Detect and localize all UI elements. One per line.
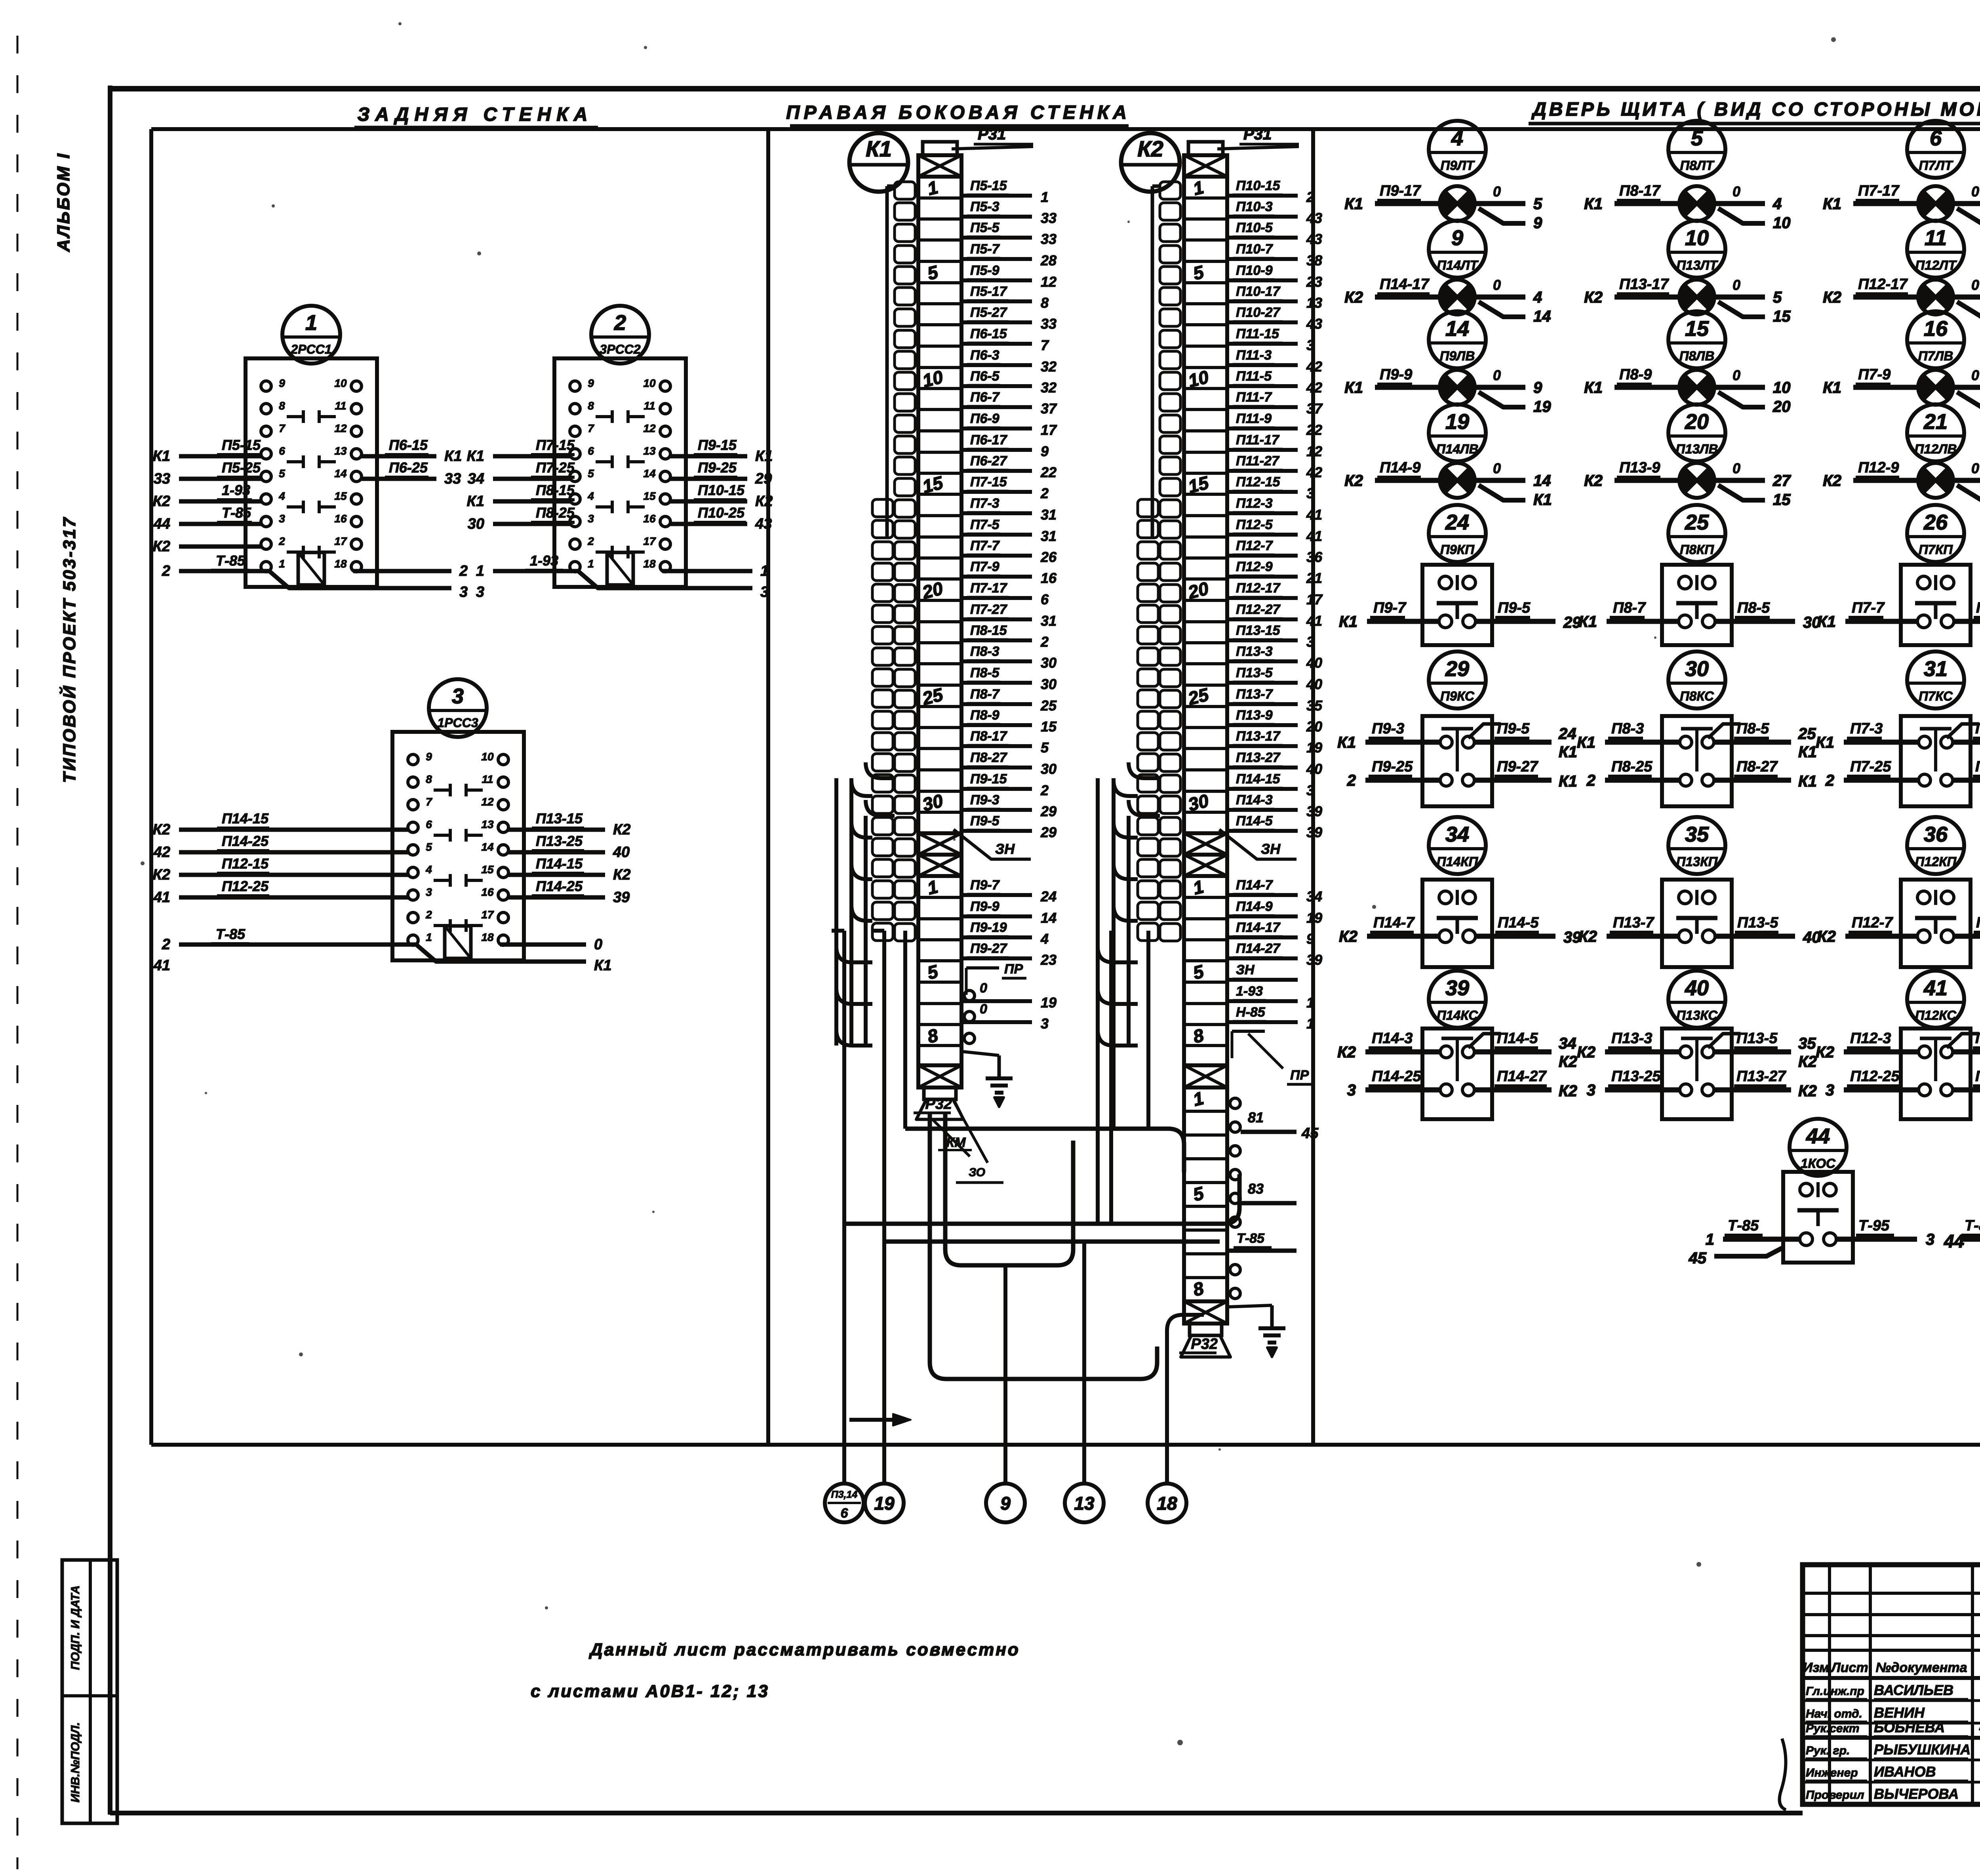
svg-text:П5-3: П5-3	[970, 199, 1000, 214]
svg-text:20: 20	[1306, 718, 1322, 735]
svg-text:1: 1	[476, 563, 484, 579]
svg-text:ЗАДНЯЯ СТЕНКА: ЗАДНЯЯ СТЕНКА	[358, 104, 593, 125]
svg-text:16: 16	[334, 512, 347, 525]
svg-text:11: 11	[1925, 226, 1947, 250]
svg-text:26: 26	[1040, 549, 1057, 565]
svg-text:8: 8	[1191, 1278, 1206, 1300]
svg-text:1: 1	[1306, 1015, 1314, 1032]
svg-text:9: 9	[1041, 443, 1049, 459]
svg-text:43: 43	[1306, 210, 1322, 226]
svg-text:31: 31	[1041, 528, 1057, 544]
svg-text:0: 0	[1971, 460, 1979, 476]
svg-text:П7-7: П7-7	[1852, 600, 1885, 616]
svg-text:Н-85: Н-85	[1236, 1005, 1266, 1020]
svg-text:К2: К2	[153, 493, 171, 510]
svg-text:15: 15	[334, 490, 347, 502]
svg-text:П13-25: П13-25	[536, 833, 583, 849]
svg-text:К2: К2	[1344, 289, 1363, 306]
svg-text:П12ЛВ: П12ЛВ	[1915, 442, 1957, 456]
svg-text:34: 34	[1445, 823, 1469, 846]
svg-text:40: 40	[1306, 676, 1322, 692]
svg-text:6: 6	[1930, 126, 1942, 150]
svg-text:Р32: Р32	[1191, 1336, 1218, 1352]
svg-text:35: 35	[1685, 823, 1709, 846]
svg-text:Т-85: Т-85	[1237, 1231, 1265, 1246]
svg-text:20: 20	[1772, 398, 1791, 415]
svg-text:К2: К2	[1578, 928, 1597, 945]
svg-text:9: 9	[279, 377, 285, 389]
svg-text:П14-17: П14-17	[1380, 276, 1430, 293]
svg-text:П12-5: П12-5	[1975, 1030, 1980, 1047]
svg-text:П10-5: П10-5	[1236, 220, 1273, 235]
svg-text:14: 14	[481, 841, 494, 853]
svg-text:П13-5: П13-5	[1737, 914, 1778, 931]
svg-text:8: 8	[1041, 295, 1049, 311]
svg-text:П12-25: П12-25	[1850, 1068, 1900, 1085]
svg-text:7: 7	[1041, 337, 1049, 353]
svg-text:39: 39	[1306, 952, 1322, 968]
svg-text:2: 2	[425, 908, 432, 921]
svg-text:П14-3: П14-3	[1372, 1030, 1413, 1047]
svg-text:8: 8	[1191, 1025, 1206, 1047]
svg-text:П13КС: П13КС	[1676, 1008, 1718, 1023]
svg-text:К2: К2	[153, 867, 171, 883]
svg-text:П12-3: П12-3	[1850, 1030, 1891, 1047]
svg-text:11: 11	[335, 400, 346, 412]
svg-text:7: 7	[279, 422, 286, 434]
svg-text:13: 13	[1306, 295, 1322, 311]
svg-text:19: 19	[1306, 910, 1322, 926]
svg-text:8: 8	[426, 773, 432, 785]
svg-text:22: 22	[1040, 464, 1057, 480]
svg-text:П9-3: П9-3	[1372, 720, 1404, 737]
svg-text:К2: К2	[1584, 289, 1603, 306]
svg-text:2РСС1: 2РСС1	[290, 342, 331, 356]
svg-text:П8-7: П8-7	[1613, 600, 1646, 616]
svg-text:2: 2	[1306, 189, 1314, 205]
svg-text:К1: К1	[1339, 613, 1357, 630]
svg-text:6: 6	[1041, 591, 1049, 608]
svg-text:0: 0	[1493, 460, 1501, 476]
svg-text:40: 40	[1685, 976, 1709, 1000]
svg-text:15: 15	[1773, 491, 1791, 509]
svg-text:8: 8	[925, 1025, 940, 1047]
svg-text:П8-17: П8-17	[970, 729, 1008, 744]
svg-text:5: 5	[1191, 1183, 1206, 1205]
svg-text:17: 17	[1306, 591, 1323, 608]
svg-text:К1: К1	[1337, 734, 1356, 751]
svg-text:К2: К2	[1798, 1082, 1817, 1100]
svg-text:18: 18	[643, 558, 656, 570]
svg-text:81: 81	[1248, 1109, 1264, 1126]
svg-text:П9-19: П9-19	[970, 920, 1007, 935]
svg-text:П8-27: П8-27	[1736, 758, 1778, 775]
svg-text:П9-5: П9-5	[1497, 720, 1530, 737]
svg-text:1-93: 1-93	[1236, 984, 1263, 999]
svg-text:19: 19	[1445, 410, 1469, 434]
svg-text:3: 3	[1826, 1082, 1834, 1099]
svg-text:ДВЕРЬ ЩИТА ( ВИД СО СТОРО: ДВЕРЬ ЩИТА ( ВИД СО СТОРОНЫ МОНТАЖА)	[1531, 99, 1980, 120]
svg-text:30: 30	[468, 516, 484, 532]
svg-text:П6-7: П6-7	[970, 390, 1000, 405]
svg-text:П8-5: П8-5	[1737, 600, 1770, 616]
svg-text:П7-3: П7-3	[970, 496, 1000, 511]
svg-text:0: 0	[980, 1002, 987, 1017]
svg-text:К1: К1	[594, 957, 612, 974]
svg-text:П7-25: П7-25	[536, 459, 575, 476]
svg-text:П9-9: П9-9	[1380, 366, 1412, 383]
svg-text:8: 8	[279, 400, 285, 412]
svg-text:П12-3: П12-3	[1236, 496, 1273, 511]
svg-text:2: 2	[1040, 485, 1049, 501]
svg-text:26: 26	[1923, 510, 1948, 534]
svg-text:3: 3	[476, 584, 484, 600]
svg-text:7: 7	[588, 422, 594, 434]
svg-text:П14-17: П14-17	[1236, 920, 1281, 935]
svg-text:К2: К2	[1137, 136, 1163, 161]
svg-text:9: 9	[588, 377, 594, 389]
svg-text:Изм: Изм	[1803, 1660, 1830, 1675]
svg-text:П9ЛТ: П9ЛТ	[1441, 158, 1475, 173]
svg-text:29: 29	[755, 470, 772, 487]
svg-text:28: 28	[1040, 252, 1057, 269]
svg-text:11: 11	[643, 400, 655, 412]
svg-text:7: 7	[426, 796, 432, 808]
svg-text:Рук. гр.: Рук. гр.	[1806, 1744, 1850, 1757]
svg-text:4: 4	[278, 490, 285, 502]
svg-text:1: 1	[1306, 994, 1314, 1011]
svg-text:П8-5: П8-5	[1736, 720, 1769, 737]
svg-text:П8-15: П8-15	[970, 623, 1007, 638]
svg-text:1: 1	[925, 177, 940, 199]
svg-text:К2: К2	[1344, 472, 1363, 489]
svg-text:9: 9	[426, 750, 432, 763]
svg-text:К1: К1	[153, 448, 171, 465]
svg-text:П13-27: П13-27	[1236, 750, 1281, 765]
svg-text:К1: К1	[1798, 743, 1817, 761]
svg-text:3: 3	[1306, 634, 1314, 650]
svg-text:П9-7: П9-7	[970, 878, 1000, 893]
svg-text:П9-3: П9-3	[970, 792, 1000, 808]
svg-text:6: 6	[279, 445, 285, 457]
svg-text:П5-17: П5-17	[970, 284, 1008, 299]
svg-text:13: 13	[1074, 1493, 1095, 1514]
svg-text:П13-7: П13-7	[1613, 914, 1654, 931]
svg-text:0: 0	[1732, 277, 1740, 293]
svg-text:П8КП: П8КП	[1680, 542, 1714, 557]
svg-text:П12КС: П12КС	[1915, 1008, 1957, 1023]
svg-text:П6-17: П6-17	[970, 432, 1008, 448]
svg-text:0: 0	[594, 936, 602, 953]
svg-text:1: 1	[1191, 1088, 1205, 1110]
svg-text:П13-3: П13-3	[1236, 644, 1273, 659]
svg-text:П11-7: П11-7	[1236, 390, 1272, 405]
svg-text:П7-17: П7-17	[1858, 183, 1900, 199]
svg-text:5: 5	[1041, 739, 1049, 756]
svg-text:К1: К1	[755, 448, 773, 465]
svg-text:К1: К1	[1344, 195, 1363, 213]
svg-text:44: 44	[1944, 1231, 1964, 1251]
svg-text:К2: К2	[1584, 472, 1603, 489]
svg-text:П8ЛТ: П8ЛТ	[1680, 158, 1715, 173]
svg-text:15: 15	[1041, 718, 1057, 735]
svg-text:П5-25: П5-25	[222, 459, 261, 476]
svg-text:3: 3	[1306, 782, 1314, 798]
svg-text:П11-27: П11-27	[1236, 453, 1280, 469]
svg-text:41: 41	[1306, 613, 1322, 629]
svg-text:П7-27: П7-27	[970, 602, 1008, 617]
svg-text:П13-7: П13-7	[1236, 687, 1274, 702]
svg-text:К2: К2	[1339, 928, 1357, 945]
svg-text:П3,14: П3,14	[831, 1489, 858, 1500]
svg-text:4: 4	[1451, 126, 1463, 150]
svg-text:ПР: ПР	[1004, 962, 1023, 977]
svg-text:Рук.сект: Рук.сект	[1806, 1722, 1859, 1735]
svg-text:К2: К2	[153, 538, 171, 555]
svg-text:ВАСИЛЬЕВ: ВАСИЛЬЕВ	[1874, 1682, 1953, 1698]
svg-text:П7-17: П7-17	[970, 581, 1008, 596]
svg-text:43: 43	[1306, 316, 1322, 332]
svg-text:3: 3	[588, 512, 594, 525]
svg-text:П14КП: П14КП	[1437, 854, 1479, 869]
svg-text:37: 37	[1041, 400, 1057, 417]
svg-text:П5-27: П5-27	[970, 305, 1008, 320]
svg-text:П13ЛВ: П13ЛВ	[1676, 442, 1718, 456]
svg-text:39: 39	[1445, 976, 1469, 1000]
svg-text:П10-27: П10-27	[1236, 305, 1281, 320]
svg-text:5: 5	[1191, 961, 1206, 983]
svg-text:3: 3	[279, 512, 285, 525]
svg-text:П12-9: П12-9	[1236, 559, 1273, 574]
svg-text:30: 30	[1685, 657, 1709, 681]
svg-text:К2: К2	[1559, 1082, 1577, 1100]
svg-text:2: 2	[587, 535, 594, 547]
svg-text:2: 2	[1825, 772, 1834, 789]
svg-text:2: 2	[1040, 782, 1049, 798]
svg-text:36: 36	[1306, 549, 1323, 565]
svg-text:12: 12	[334, 422, 347, 434]
svg-text:П12ЛТ: П12ЛТ	[1915, 258, 1957, 272]
svg-text:П13-17: П13-17	[1236, 729, 1281, 744]
svg-text:П9-27: П9-27	[970, 941, 1008, 956]
svg-text:2: 2	[1347, 772, 1356, 789]
svg-text:П10-17: П10-17	[1236, 284, 1281, 299]
svg-text:40: 40	[1306, 761, 1322, 777]
svg-text:П5-7: П5-7	[970, 242, 1000, 257]
svg-text:4: 4	[1533, 289, 1542, 306]
svg-text:43: 43	[755, 516, 772, 532]
svg-text:К1: К1	[444, 448, 462, 465]
svg-text:П13-5: П13-5	[1736, 1030, 1778, 1047]
svg-text:5: 5	[1773, 289, 1782, 306]
svg-text:5: 5	[426, 841, 432, 853]
svg-text:17: 17	[481, 908, 494, 921]
svg-text:83: 83	[1248, 1181, 1264, 1197]
svg-text:13: 13	[643, 445, 656, 457]
svg-text:П9-15: П9-15	[970, 771, 1007, 787]
svg-text:1: 1	[588, 558, 594, 570]
svg-text:39: 39	[1306, 803, 1322, 819]
svg-text:КМ: КМ	[946, 1135, 966, 1150]
svg-text:12: 12	[643, 422, 656, 434]
svg-text:6: 6	[588, 445, 594, 457]
svg-text:5: 5	[1191, 261, 1206, 284]
svg-text:1: 1	[925, 876, 940, 899]
svg-text:П11-3: П11-3	[1236, 348, 1272, 363]
svg-text:14: 14	[1041, 910, 1057, 926]
svg-text:2: 2	[614, 311, 626, 335]
svg-text:Данный лист рассмат: Данный лист рассматривать совместно	[588, 1640, 1020, 1659]
svg-text:1: 1	[1706, 1231, 1714, 1248]
svg-text:БОБНЕВА: БОБНЕВА	[1874, 1719, 1945, 1735]
svg-text:10: 10	[1685, 226, 1709, 250]
svg-text:К1: К1	[1577, 734, 1595, 751]
svg-text:29: 29	[1040, 803, 1057, 819]
svg-text:43: 43	[1306, 231, 1322, 247]
svg-text:П7-9: П7-9	[1858, 366, 1891, 383]
svg-text:П14-15: П14-15	[536, 855, 583, 872]
svg-text:42: 42	[1306, 379, 1322, 396]
svg-text:25: 25	[1040, 697, 1057, 714]
svg-text:5: 5	[588, 467, 594, 480]
svg-text:15: 15	[1685, 317, 1709, 341]
svg-text:К2: К2	[1817, 928, 1836, 945]
svg-text:9: 9	[1451, 226, 1463, 250]
svg-text:22: 22	[1306, 422, 1322, 438]
svg-text:0: 0	[1971, 183, 1979, 200]
svg-text:П14-7: П14-7	[1236, 878, 1274, 893]
svg-text:П9-5: П9-5	[970, 813, 1000, 828]
svg-text:27: 27	[1772, 472, 1791, 489]
svg-text:42: 42	[153, 844, 170, 861]
svg-text:5: 5	[1691, 126, 1703, 150]
svg-text:34: 34	[1559, 1035, 1576, 1052]
svg-text:Лист: Лист	[1830, 1660, 1868, 1675]
svg-text:14: 14	[334, 467, 347, 480]
svg-text:К1: К1	[1559, 773, 1577, 790]
svg-text:П7КП: П7КП	[1919, 542, 1953, 557]
svg-text:П14-25: П14-25	[536, 878, 583, 894]
svg-text:П14-27: П14-27	[1497, 1068, 1547, 1085]
svg-text:9: 9	[1306, 931, 1314, 947]
svg-text:П9-25: П9-25	[698, 459, 737, 476]
svg-text:П8-17: П8-17	[1619, 183, 1661, 199]
svg-text:33: 33	[1041, 210, 1057, 226]
svg-text:33: 33	[1041, 231, 1057, 247]
svg-text:П7-5: П7-5	[1976, 600, 1980, 616]
svg-text:10: 10	[481, 750, 494, 763]
svg-text:П5-15: П5-15	[222, 437, 261, 453]
svg-text:П13-25: П13-25	[1611, 1068, 1661, 1085]
svg-text:6: 6	[426, 818, 432, 830]
svg-text:1: 1	[1191, 876, 1205, 899]
svg-text:К1: К1	[1584, 195, 1603, 213]
svg-text:П12-27: П12-27	[1975, 1068, 1980, 1085]
svg-text:К1: К1	[1578, 613, 1597, 630]
svg-text:П7-15: П7-15	[970, 474, 1007, 489]
svg-text:№документа: №документа	[1875, 1660, 1967, 1675]
svg-text:П13-9: П13-9	[1236, 708, 1273, 723]
svg-text:П8-9: П8-9	[970, 708, 1000, 723]
svg-text:ПР: ПР	[1290, 1068, 1309, 1083]
svg-text:31: 31	[1041, 507, 1057, 523]
svg-text:1: 1	[760, 563, 769, 579]
svg-text:0: 0	[1493, 183, 1501, 200]
svg-text:К1: К1	[1823, 379, 1841, 396]
svg-text:10: 10	[1773, 214, 1791, 232]
svg-text:К2: К2	[1823, 472, 1841, 489]
svg-text:6: 6	[841, 1506, 849, 1521]
svg-text:Т-85: Т-85	[216, 552, 246, 569]
svg-text:21: 21	[1923, 410, 1948, 434]
svg-text:32: 32	[1041, 358, 1057, 375]
svg-text:К1: К1	[1584, 379, 1603, 396]
svg-text:П8-15: П8-15	[536, 482, 575, 498]
svg-text:П14ЛТ: П14ЛТ	[1437, 258, 1479, 272]
svg-text:П5-5: П5-5	[970, 220, 1000, 235]
svg-text:3: 3	[1306, 485, 1314, 501]
svg-text:П7-15: П7-15	[536, 437, 575, 453]
svg-text:П14-5: П14-5	[1236, 813, 1273, 828]
svg-text:П10-15: П10-15	[1236, 178, 1281, 193]
svg-text:П7-5: П7-5	[970, 517, 1000, 532]
svg-text:П14-25: П14-25	[222, 833, 269, 849]
svg-text:с листами А0В1- 12; 13: с листами А0В1- 12; 13	[531, 1682, 769, 1701]
svg-text:П12-7: П12-7	[1852, 914, 1893, 931]
svg-text:К1: К1	[1816, 734, 1834, 751]
svg-text:0: 0	[1732, 183, 1740, 200]
svg-text:ЗО: ЗО	[969, 1166, 985, 1179]
svg-text:П14-9: П14-9	[1380, 459, 1420, 476]
svg-text:К2: К2	[1823, 289, 1841, 306]
svg-text:П7-25: П7-25	[1850, 758, 1891, 775]
svg-text:3: 3	[459, 584, 468, 600]
svg-text:П12-17: П12-17	[1858, 276, 1908, 293]
svg-text:П6-15: П6-15	[970, 326, 1007, 341]
svg-text:0: 0	[1493, 367, 1501, 383]
svg-text:0: 0	[980, 981, 987, 996]
svg-text:П8-5: П8-5	[970, 665, 1000, 680]
svg-text:П14-15: П14-15	[1236, 771, 1281, 787]
svg-text:П14-3: П14-3	[1236, 792, 1273, 808]
svg-text:3: 3	[760, 584, 769, 600]
svg-text:41: 41	[1306, 528, 1322, 544]
svg-text:39: 39	[613, 889, 630, 906]
svg-text:П10-9: П10-9	[1236, 263, 1273, 278]
svg-text:31: 31	[1924, 657, 1948, 681]
svg-text:1-93: 1-93	[530, 552, 558, 569]
svg-text:25: 25	[1685, 510, 1709, 534]
svg-text:П14-15: П14-15	[222, 810, 269, 827]
svg-text:П9КП: П9КП	[1440, 542, 1475, 557]
svg-text:3РСС2: 3РСС2	[600, 342, 640, 356]
svg-text:П9-27: П9-27	[1497, 758, 1538, 775]
svg-text:3: 3	[426, 886, 432, 898]
svg-text:К1: К1	[1798, 773, 1817, 790]
svg-text:П10-25: П10-25	[698, 505, 745, 521]
svg-text:5: 5	[1533, 195, 1542, 213]
svg-text:10: 10	[643, 377, 656, 389]
svg-text:2: 2	[1586, 772, 1595, 789]
svg-text:4: 4	[1772, 195, 1782, 213]
svg-text:18: 18	[1157, 1493, 1177, 1514]
svg-text:К1: К1	[467, 448, 485, 465]
svg-text:3: 3	[1926, 1231, 1934, 1248]
svg-text:П14-9: П14-9	[1236, 899, 1273, 914]
svg-text:19: 19	[1533, 398, 1551, 415]
svg-text:13: 13	[481, 818, 494, 830]
svg-text:ТИПОВОЙ ПРОЕКТ 503-317: ТИПОВОЙ ПРОЕКТ 503-317	[59, 516, 79, 783]
